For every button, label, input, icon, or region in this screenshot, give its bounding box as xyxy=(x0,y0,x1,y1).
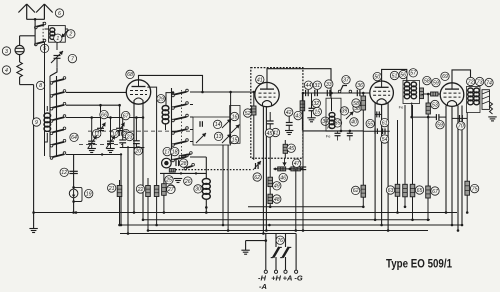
svg-text:59: 59 xyxy=(433,80,439,86)
svg-text:62: 62 xyxy=(353,188,359,194)
terminal -G xyxy=(295,270,298,273)
bus junction xyxy=(147,229,150,232)
capacitor C41 xyxy=(267,121,274,124)
label 11 xyxy=(93,129,101,137)
label 63 xyxy=(386,186,394,194)
coil T3 primary xyxy=(468,88,474,105)
wire R66 bottom xyxy=(412,197,414,220)
svg-text:64: 64 xyxy=(71,135,77,141)
wire V3 cathode link xyxy=(375,113,382,115)
lower trimmer 1 plates xyxy=(88,141,95,143)
wire coil to switch xyxy=(45,28,49,30)
svg-text:6: 6 xyxy=(58,11,61,17)
bus junction xyxy=(411,219,414,222)
wire C11 bottom xyxy=(100,131,102,136)
label 62 xyxy=(351,186,359,194)
wire mixer row xyxy=(303,92,370,94)
bus junction xyxy=(404,206,407,209)
svg-text:21: 21 xyxy=(108,186,115,192)
svg-text:+A: +A xyxy=(283,274,293,283)
capacitor padder 2 xyxy=(347,133,353,135)
resistor R52 xyxy=(252,106,256,115)
wire SB2 row3 xyxy=(190,116,193,118)
bus junction xyxy=(155,224,158,227)
wire T2 to V4 grid xyxy=(424,93,431,95)
svg-text:49: 49 xyxy=(274,184,280,190)
svg-text:9: 9 xyxy=(35,120,38,126)
wire V1 screen lead xyxy=(147,87,156,185)
label 54 xyxy=(380,135,388,143)
bus junction xyxy=(451,224,454,227)
label 41a xyxy=(256,75,264,83)
node osc row b xyxy=(349,130,352,133)
capacitor on x303 xyxy=(300,167,306,170)
svg-text:73: 73 xyxy=(477,79,483,85)
svg-text:65: 65 xyxy=(417,188,423,194)
wire R63 top xyxy=(397,120,399,184)
node T2 bottom xyxy=(410,116,413,119)
wire cathode cap row xyxy=(452,117,467,119)
bus junction xyxy=(142,219,145,222)
svg-text:32: 32 xyxy=(313,101,319,107)
svg-text:68: 68 xyxy=(127,72,133,78)
wire R75 bottom xyxy=(466,195,468,212)
switch SB2-4 xyxy=(172,127,189,135)
wire R75 top xyxy=(466,113,468,182)
resistor R24b xyxy=(154,186,159,197)
node mixer left xyxy=(302,92,305,95)
label 46 xyxy=(279,173,287,181)
resistor R63 xyxy=(395,184,400,196)
wire V1 leg2 xyxy=(142,104,144,220)
bus junction xyxy=(387,229,390,232)
node lamp bottom xyxy=(72,200,75,203)
coil L1 xyxy=(50,28,55,40)
wire L22 bottom xyxy=(165,125,167,131)
bus junction xyxy=(265,229,268,232)
svg-text:14: 14 xyxy=(215,122,221,128)
label 15b xyxy=(313,107,321,115)
wire V3 anode to IF2 xyxy=(382,69,407,82)
label 23 xyxy=(125,132,133,140)
bus line 1 xyxy=(248,206,364,208)
bus junction xyxy=(295,229,298,232)
wire bank1 to V1 grid xyxy=(66,91,126,93)
ground speaker xyxy=(488,117,496,121)
node L30 bus xyxy=(205,206,208,209)
capacitor padder 1 xyxy=(335,133,341,135)
wire boxB drop2 xyxy=(227,145,229,231)
label 33 xyxy=(325,80,333,88)
label 29 xyxy=(157,95,165,103)
wire SB2 row5 xyxy=(190,141,193,143)
label 62x xyxy=(253,173,261,181)
wire x121 drop xyxy=(120,156,122,225)
wire V4 legs xyxy=(445,106,447,213)
svg-text:69: 69 xyxy=(442,74,448,80)
phono jack J1 xyxy=(15,45,24,54)
label 4 xyxy=(2,66,10,74)
capacitor C20 xyxy=(133,141,140,144)
bus junction xyxy=(374,219,377,222)
svg-text:53: 53 xyxy=(432,102,438,108)
label 27 xyxy=(167,185,175,193)
wire gnd stub xyxy=(246,240,266,242)
trimmer arrow C xyxy=(231,125,240,134)
resistor R67 xyxy=(426,186,431,198)
svg-text:4: 4 xyxy=(5,68,8,74)
label 7 xyxy=(68,54,76,62)
trimmer C11 plates xyxy=(97,128,104,130)
svg-text:56: 56 xyxy=(400,72,406,78)
tube V3 xyxy=(370,81,394,105)
label 44 xyxy=(304,81,312,89)
svg-text:61: 61 xyxy=(382,120,388,126)
wire L22 top xyxy=(166,93,172,106)
wire grid to boxB xyxy=(230,92,232,117)
node osc row a xyxy=(340,130,343,133)
capacitor C23 xyxy=(119,140,126,143)
transformer L1 box xyxy=(49,26,66,43)
node -H tap xyxy=(265,239,268,242)
resistor R27 xyxy=(162,184,167,196)
label 17 xyxy=(163,147,171,155)
label 55 xyxy=(366,119,374,127)
node grid boxB xyxy=(229,91,232,94)
trimmer arrow vol xyxy=(253,161,261,170)
resistor R53 xyxy=(426,103,430,114)
resistor R44 xyxy=(300,101,305,111)
node bottom row xyxy=(101,153,103,155)
svg-text:28: 28 xyxy=(180,161,187,167)
wire V4 anode to T3 xyxy=(452,70,471,86)
label 67 xyxy=(122,111,130,119)
capacitor C59 xyxy=(436,114,439,120)
svg-text:66: 66 xyxy=(101,112,107,118)
label 64b xyxy=(70,133,78,141)
label 26 xyxy=(184,177,192,185)
node osc1 xyxy=(180,172,182,174)
lower trimmer 2 arrow xyxy=(106,136,115,149)
svg-text:25: 25 xyxy=(165,178,172,184)
variable capacitor CV xyxy=(162,158,172,168)
wire AVC row xyxy=(363,130,389,132)
trimmer C7 xyxy=(54,56,61,59)
wire C42 top xyxy=(288,112,290,123)
wire C20 column xyxy=(135,118,137,141)
wire SB2 row2 xyxy=(190,104,193,106)
wire padder 1 lead xyxy=(337,131,339,133)
label 45x xyxy=(265,129,273,137)
wire bus to ground xyxy=(33,213,35,229)
svg-text:36: 36 xyxy=(357,83,363,89)
wire lt1 bottom xyxy=(91,144,93,149)
bus line 2 main xyxy=(34,212,457,214)
coil L30 osc choke xyxy=(202,179,210,200)
resistor R49 xyxy=(268,177,273,186)
label 57 xyxy=(409,69,417,77)
label 19 xyxy=(85,189,93,197)
label 1 xyxy=(54,34,62,42)
wire R58 top xyxy=(362,93,364,96)
node R53 grid wire xyxy=(427,93,430,96)
wire V2 anode to IF1 xyxy=(267,69,331,98)
wire T1 top lead xyxy=(331,98,333,111)
bus junction xyxy=(302,229,305,232)
wire to jack xyxy=(20,35,35,37)
wire +A upper xyxy=(285,234,287,248)
wire R62 drop xyxy=(362,131,364,186)
bus junction xyxy=(227,229,230,232)
bus junction xyxy=(120,224,123,227)
wire coil out xyxy=(65,28,68,30)
bus junction xyxy=(222,224,225,227)
label 68 xyxy=(126,70,134,78)
wire V3 leg2 xyxy=(381,105,383,225)
capacitor C44 xyxy=(306,90,309,96)
svg-text:51: 51 xyxy=(392,73,398,79)
label 34 xyxy=(321,117,329,125)
terminal -H xyxy=(264,270,267,273)
coil T3 secondary xyxy=(474,88,480,105)
node row2 a xyxy=(99,104,102,107)
wire osc bottom row xyxy=(303,130,363,132)
svg-text:Fe: Fe xyxy=(399,105,404,110)
grid resistor R59 xyxy=(431,92,438,96)
wire R62 to bus xyxy=(362,197,364,207)
label 74 xyxy=(485,78,493,86)
wire switch rail xyxy=(34,25,36,46)
capacitor C36 xyxy=(357,90,360,96)
ground grid leak xyxy=(307,118,315,122)
wire boxB drop1 xyxy=(222,145,224,225)
capacitor C31 xyxy=(315,90,318,96)
wire +H lower xyxy=(275,257,277,270)
wire R65 top xyxy=(404,105,406,184)
wire R66 top xyxy=(412,105,414,184)
wire R52 down xyxy=(253,115,255,160)
bus line 3 xyxy=(142,219,430,221)
resistor R58 xyxy=(361,96,366,110)
wire R44 bottom xyxy=(301,111,303,131)
wire R4 down xyxy=(19,77,21,85)
label 16 xyxy=(230,112,238,120)
svg-text:40: 40 xyxy=(351,120,357,126)
trimmer box C outline xyxy=(230,106,240,144)
label 12 xyxy=(60,168,68,176)
svg-text:29: 29 xyxy=(157,97,164,103)
svg-text:19: 19 xyxy=(86,191,92,197)
switch SB1-1 xyxy=(50,77,66,85)
capacitor in box B xyxy=(200,121,202,127)
bus line 5 xyxy=(148,230,428,232)
label 56 xyxy=(399,70,407,78)
svg-text:+H: +H xyxy=(271,274,281,283)
capacitor AVC 1 xyxy=(375,128,377,134)
wire V2 legs xyxy=(262,106,264,234)
svg-text:2: 2 xyxy=(68,32,72,38)
resistor small xyxy=(169,169,175,172)
label 13 xyxy=(214,132,222,140)
label 5 xyxy=(40,44,48,52)
label 28b xyxy=(122,129,130,137)
wire R48 bottom xyxy=(269,204,271,207)
label 58b xyxy=(352,99,360,107)
node antenna junction xyxy=(34,18,37,21)
wire grid drop at box edge xyxy=(253,92,255,106)
wire R27 top xyxy=(163,173,165,183)
label 8 xyxy=(36,81,44,89)
label 76 xyxy=(276,236,284,244)
label 30 xyxy=(194,185,202,193)
bus junction xyxy=(262,232,265,235)
label 67b xyxy=(431,187,439,195)
label 48 xyxy=(273,195,281,203)
bus junction xyxy=(75,211,78,214)
label 32 xyxy=(312,99,320,107)
label 47 xyxy=(292,159,300,167)
lower trimmer 1 arrow xyxy=(88,136,97,149)
wire caps lower row xyxy=(120,147,145,149)
svg-text:52: 52 xyxy=(245,111,251,117)
label 51 xyxy=(390,71,398,79)
label 28 xyxy=(179,159,187,167)
label 21 xyxy=(108,184,116,192)
coil L22 xyxy=(162,106,169,124)
tube V4 xyxy=(440,83,464,107)
wire R21 top xyxy=(119,180,121,186)
bus junction xyxy=(268,224,271,227)
trimmer arrow B3 xyxy=(222,134,231,143)
label 72 xyxy=(467,77,475,85)
label 39 xyxy=(340,107,348,115)
capacitor C12b xyxy=(69,171,77,173)
switch SB1-5 xyxy=(50,127,66,135)
wire T2 out xyxy=(422,94,424,96)
svg-text:23: 23 xyxy=(126,134,133,140)
svg-text:30: 30 xyxy=(195,187,201,193)
bus line 6 xyxy=(120,233,296,235)
wire L30 top xyxy=(205,157,207,179)
label 37 xyxy=(342,76,350,84)
wire V3 leg3 xyxy=(387,103,389,231)
svg-text:8: 8 xyxy=(39,83,42,89)
svg-text:43: 43 xyxy=(295,113,301,119)
svg-text:70: 70 xyxy=(458,124,464,130)
capacitor C70 xyxy=(460,115,463,122)
switch S17 xyxy=(179,152,192,158)
ground C42 xyxy=(285,131,293,135)
wire SB2 row4 xyxy=(190,129,193,131)
wire C23 column xyxy=(122,118,124,141)
svg-text:62: 62 xyxy=(254,175,260,181)
wire lamp branch xyxy=(73,155,75,213)
label 40 xyxy=(350,118,358,126)
label 24 xyxy=(167,185,175,193)
wire mixer left drop xyxy=(302,93,304,131)
label 53 xyxy=(431,100,439,108)
svg-text:33: 33 xyxy=(326,82,332,88)
IF transformer T2 box xyxy=(403,81,420,104)
ground main bus xyxy=(29,229,37,233)
bus junction xyxy=(380,224,383,227)
wire x303 drop xyxy=(302,131,304,231)
wire -G xyxy=(295,234,297,271)
svg-text:59: 59 xyxy=(437,123,443,129)
wire padder 2 down xyxy=(349,136,351,141)
antenna A2 xyxy=(36,4,53,20)
trimmer core arrow L1 xyxy=(62,30,69,38)
output transformer T3 xyxy=(467,87,481,113)
wire -H xyxy=(265,234,267,271)
svg-text:13: 13 xyxy=(216,134,222,140)
wire antenna drop xyxy=(34,19,36,24)
svg-text:50: 50 xyxy=(374,74,380,80)
wire SB2 row6 xyxy=(190,156,206,158)
wire R21 bottom xyxy=(119,197,121,226)
resistor R48 xyxy=(268,194,273,203)
wire V4 leg2 xyxy=(451,107,453,225)
label 75 xyxy=(470,184,478,192)
wire antenna join xyxy=(27,18,45,20)
svg-text:1: 1 xyxy=(56,36,59,42)
switch SB1-3 xyxy=(50,102,66,110)
wire +H upper xyxy=(275,234,277,248)
wire V2 leg2 xyxy=(265,106,267,231)
wire C42 bottom xyxy=(288,125,290,130)
svg-text:27: 27 xyxy=(167,187,175,193)
trimmer C10 plates xyxy=(116,128,123,130)
coil T2 secondary xyxy=(411,82,416,99)
label 20 xyxy=(134,147,142,155)
resistor R75 xyxy=(465,181,470,195)
node row3 a xyxy=(90,116,93,119)
svg-text:75: 75 xyxy=(472,186,478,192)
terminal +A xyxy=(284,270,287,273)
wire jack top xyxy=(19,36,21,46)
svg-text:39: 39 xyxy=(342,109,348,115)
trimmer arrow B2 xyxy=(222,119,231,128)
gang dashed SB2 xyxy=(181,90,183,158)
switch S1a xyxy=(35,22,46,29)
wire R53 down xyxy=(427,114,429,186)
resistor R24a xyxy=(146,186,151,197)
trimmer C28 xyxy=(176,160,179,166)
bus junction xyxy=(427,219,430,222)
switch S18 xyxy=(184,163,194,170)
dial lamp xyxy=(69,189,78,198)
wire SB2 to V2 grid xyxy=(190,91,255,93)
bus junction xyxy=(457,229,460,232)
label 61 xyxy=(380,118,388,126)
tube V1 xyxy=(126,80,150,104)
capacitor vol xyxy=(256,163,259,169)
resistor R4 zigzag xyxy=(17,62,23,77)
antenna A1 xyxy=(18,4,35,20)
label 45 xyxy=(287,144,295,152)
wire L9 bottom xyxy=(45,133,48,142)
label 69 xyxy=(441,72,449,80)
capacitor V3 k xyxy=(377,111,380,117)
wire y117 row xyxy=(412,116,436,118)
node lamp top xyxy=(72,186,75,189)
bus junction xyxy=(396,211,399,214)
bus junction xyxy=(461,224,464,227)
secondary bottom lead xyxy=(411,103,413,118)
ground main xyxy=(241,250,249,254)
label 66 xyxy=(100,110,108,118)
label 59 xyxy=(436,121,444,129)
